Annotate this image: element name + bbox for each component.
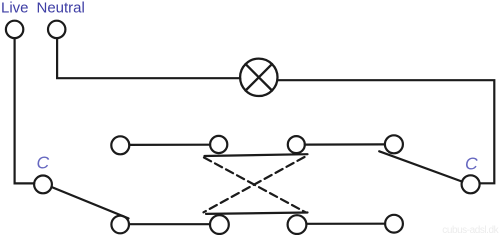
terminal Live	[6, 21, 23, 38]
wire Live feed to SW1 common	[15, 38, 35, 183]
SW3 bottom link bar	[206, 213, 308, 214]
wire strap intermediate to SW2 L2	[306, 223, 385, 225]
svg-text:C: C	[465, 154, 478, 174]
switch SW2 contact L2	[385, 215, 403, 233]
wire strap L2 to intermediate	[129, 223, 210, 225]
switch SW2 contact L1	[385, 135, 403, 153]
intermediate SW3 terminal 1	[210, 136, 227, 153]
wire lamp to SW2 common	[277, 80, 494, 183]
intermediate SW3 terminal 2	[288, 136, 305, 153]
svg-text:Live: Live	[1, 0, 29, 17]
intermediate SW3 terminal 3	[210, 215, 229, 234]
SW3 top link bar	[205, 154, 308, 156]
svg-text:C: C	[37, 152, 50, 172]
SW3 crossed position dashed link 2	[204, 157, 305, 212]
intermediate SW3 terminal 4	[288, 215, 307, 234]
switch SW1 contact L1	[111, 136, 129, 154]
switch SW1 blade	[52, 187, 129, 218]
terminal Neutral	[48, 21, 65, 38]
wire strap intermediate to SW2 L1	[305, 143, 385, 145]
svg-text:Neutral: Neutral	[37, 0, 85, 17]
lamp LP1	[240, 59, 277, 96]
switch SW2 common terminal	[462, 175, 480, 193]
SW3 crossed position dashed link 1	[204, 158, 305, 213]
svg-text:cubus-adsl.dk: cubus-adsl.dk	[442, 225, 499, 235]
switch SW2 blade	[379, 151, 462, 181]
switch SW1 contact L2	[111, 216, 129, 234]
wire Neutral to lamp	[57, 38, 240, 78]
switch SW1 common terminal	[34, 176, 52, 194]
wire strap L1 to intermediate	[129, 144, 210, 146]
